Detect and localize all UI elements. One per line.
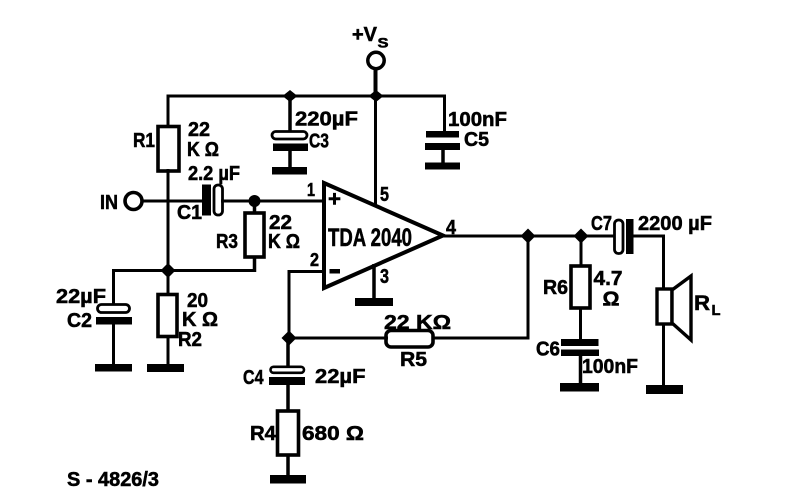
wire R3 top stub [253,201,257,215]
wire rail down to C5 [443,95,446,133]
wire C3 to ground [288,150,292,169]
wire top supply rail [167,95,447,98]
svg-text:K Ω: K Ω [187,139,219,161]
capacitor C7 solid plate [626,219,634,254]
speaker RL driver rectangle [657,289,672,324]
node output junction feedback [521,229,536,244]
speaker RL cone [672,276,691,340]
wire bias rail (C2 corner to R3 bottom) [114,269,257,272]
ground R2 [147,364,184,372]
wire speaker top [662,235,665,291]
svg-text:22µF: 22µF [315,366,366,388]
op-amp minus marking [330,269,341,274]
svg-text:R3: R3 [216,231,238,253]
resistor R3 [245,213,264,257]
svg-text:220µF: 220µF [295,109,358,131]
node output junction R6 [574,229,589,244]
capacitor C3 curved plate [272,132,307,140]
svg-text:5: 5 [380,184,389,206]
svg-text:K Ω: K Ω [268,231,300,253]
ground speaker [646,385,683,394]
svg-text:S - 4826/3: S - 4826/3 [67,469,159,491]
resistor R1 [158,127,179,172]
capacitor C7 curved plate [615,220,624,254]
svg-text:Ω: Ω [603,289,620,311]
svg-text:22µF: 22µF [56,286,106,308]
ground C3 [272,167,307,175]
wire C5 to ground [441,150,445,164]
capacitor C6 plate bottom [561,350,599,357]
wire C6 to ground [579,356,583,385]
node input junction dot [249,195,261,207]
svg-text:22: 22 [188,119,210,141]
resistor R2 [158,295,177,337]
ground pin 3 [355,298,393,306]
svg-text:C2: C2 [67,310,92,332]
svg-text:C4: C4 [243,367,264,389]
wire pin 2 down to feedback node [288,270,291,339]
node bias junction diamond [161,263,176,278]
svg-text:100nF: 100nF [582,356,638,378]
wire R2 top stub [167,270,170,296]
wire R1 bottom to bias node [167,169,170,272]
node inverting junction diamond [282,331,297,346]
capacitor C6 plate top [561,339,599,346]
IN terminal circle [125,193,142,210]
svg-text:R: R [694,292,710,315]
svg-text:100nF: 100nF [448,109,507,131]
wire C4 to R4 [286,385,290,412]
svg-text:2.2 µF: 2.2 µF [188,163,240,185]
wire R1 top (rail to R1) [167,95,170,129]
node rail junction +Vs [369,90,384,102]
svg-text:3: 3 [380,266,389,288]
svg-text:S: S [378,35,389,51]
wire pin 5 from rail to op-amp [374,96,377,208]
svg-text:L: L [712,302,721,319]
wire pin 3 to ground [372,264,376,300]
capacitor C2 solid plate [96,317,132,325]
svg-text:22 KΩ: 22 KΩ [384,312,451,334]
wire feedback to R5 right [431,337,530,340]
capacitor C4 curved plate [271,367,305,373]
capacitor C3 solid plate [273,144,308,152]
svg-text:+: + [328,187,341,212]
wire C2 to ground [112,324,115,366]
svg-text:680 Ω: 680 Ω [302,423,364,445]
wire pin 2 horizontal [289,270,327,273]
wire output pin 4 [443,235,616,238]
ground C6 [560,383,599,392]
svg-text:TDA 2040: TDA 2040 [328,224,412,252]
svg-text:IN: IN [100,192,118,214]
capacitor C2 curved plate [98,305,130,313]
svg-text:2: 2 [310,250,319,270]
svg-text:1: 1 [307,180,315,200]
wire R5 left to inverting node [289,337,388,340]
capacitor C1 curved plate [214,185,223,215]
ground C5 [425,163,460,170]
wire C2 corner down [112,269,115,306]
wire speaker bottom [662,323,665,387]
svg-text:R1: R1 [133,130,155,152]
resistor R6 [571,266,590,308]
capacitor C4 solid plate [269,377,305,385]
svg-text:+V: +V [352,24,378,46]
svg-text:K Ω: K Ω [182,309,218,331]
wire C7 to speaker corner [632,235,665,238]
svg-text:R5: R5 [400,349,427,371]
wire R2 bottom stub [167,335,170,366]
resistor R5 [386,331,433,348]
wire R4 to ground [286,454,290,477]
op-amp U1 TDA2040 [324,183,443,288]
svg-text:C7: C7 [591,213,612,235]
capacitor C5 plate bottom [425,143,460,150]
svg-text:R6: R6 [543,277,568,299]
label RL [694,292,721,319]
wire R6 to C6 [579,307,582,341]
wire R6 top stub [580,236,583,267]
svg-text:R2: R2 [178,329,202,351]
svg-text:C3: C3 [309,131,329,153]
wire R3 bottom stub to bias wire [253,256,257,272]
ground R4 [270,475,306,484]
wire C3 stub [288,96,292,133]
+Vs terminal circle [368,52,384,68]
node rail junction C3 [283,90,298,102]
svg-text:C6: C6 [536,339,560,361]
wire C1 to pin 1 [221,200,327,203]
svg-text:C1: C1 [177,202,202,224]
svg-text:4.7: 4.7 [594,268,623,290]
wire feedback down from output [527,236,530,340]
wire IN to C1 [142,200,203,203]
resistor R4 [278,411,299,455]
capacitor C5 plate top [426,131,459,138]
svg-text:2200 µF: 2200 µF [638,213,712,235]
svg-text:R4: R4 [250,423,277,445]
label +Vs [352,24,389,51]
capacitor C1 solid plate [202,185,211,216]
svg-text:C5: C5 [464,129,489,151]
wire C4 top stub [286,338,290,367]
ground C2 [95,364,132,372]
wire +Vs stub down to rail [374,67,378,96]
